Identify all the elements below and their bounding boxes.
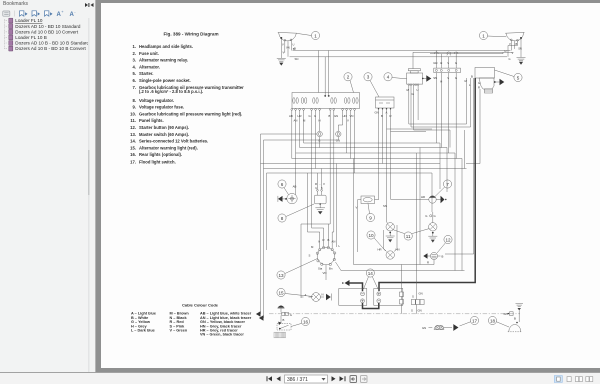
svg-text:V: V (323, 182, 325, 186)
layout icon 1 (active) (554, 376, 562, 383)
svg-text:V: V (447, 76, 449, 80)
scrollbar (88, 18, 90, 372)
svg-text:Fig. 389 - Wiring Diagram: Fig. 389 - Wiring Diagram (163, 32, 218, 37)
svg-text:18: 18 (490, 318, 496, 323)
svg-text:Starter.: Starter. (139, 71, 153, 76)
node label 16 (291, 317, 310, 326)
node label 8 (278, 204, 314, 222)
multi-way connector (434, 68, 461, 73)
svg-text:5.: 5. (133, 71, 137, 76)
battery 1 (14) (339, 289, 367, 306)
svg-text:4.: 4. (133, 64, 137, 69)
node label 6 (278, 180, 289, 195)
svg-text:B: B (442, 255, 444, 259)
fuse unit top feeds (319, 51, 329, 96)
svg-text:G: G (425, 214, 427, 218)
svg-text:4: 4 (387, 75, 390, 80)
headlamp right lead labels (505, 42, 522, 61)
ground (switch 16) (278, 306, 285, 313)
svg-text:GN: GN (419, 292, 423, 296)
node label 12 (437, 235, 452, 253)
previous view icon (350, 376, 357, 383)
node label 3 (364, 73, 379, 97)
svg-text:AB: AB (293, 184, 297, 188)
ground (right headlamp) (517, 58, 526, 65)
voltage regulator (8) (314, 189, 326, 204)
svg-text:10: 10 (368, 233, 374, 238)
svg-text:13: 13 (278, 273, 284, 278)
left wire end arrows (256, 311, 264, 321)
svg-text:8: 8 (281, 216, 284, 221)
ground (panel lamp left) (386, 233, 395, 242)
svg-text:Alternator warning light (red): Alternator warning light (red). (139, 145, 198, 150)
svg-text:GN: GN (375, 111, 379, 115)
svg-text:G: G (309, 114, 311, 118)
svg-text:Rear lights (optional).: Rear lights (optional). (139, 152, 182, 157)
svg-text:R: R (427, 261, 429, 265)
svg-text:G: G (290, 313, 292, 317)
next page button (332, 376, 336, 381)
svg-text:SN: SN (433, 76, 437, 80)
routing bus lines (261, 143, 467, 173)
svg-text:1: 1 (482, 33, 485, 38)
regulator feed wires (317, 169, 321, 190)
master switch terminal labels (309, 238, 341, 275)
svg-text:8.: 8. (133, 98, 137, 103)
svg-text:GN: GN (334, 114, 338, 118)
node label 1 (left) (297, 31, 320, 39)
headlamp left (1) (278, 32, 297, 41)
svg-text:3.: 3. (133, 58, 137, 63)
svg-text:Flood light switch.: Flood light switch. (139, 160, 176, 165)
svg-text:AB: AB (289, 114, 293, 118)
headlamp right (1) (505, 32, 524, 41)
master switch (13) (316, 246, 336, 265)
svg-text:A: A (305, 293, 307, 297)
starter (5) (475, 68, 496, 94)
svg-text:SN: SN (518, 47, 522, 51)
fuse unit wire labels (289, 114, 353, 123)
connector stack labels (411, 292, 423, 313)
node label 5 (495, 70, 523, 82)
node label 17 (460, 316, 479, 326)
svg-text:2.: 2. (133, 51, 137, 56)
svg-text:G: G (509, 57, 511, 61)
svg-text:G: G (455, 76, 457, 80)
bookmark icon 3 (45, 11, 53, 16)
starter drop wires (466, 78, 480, 254)
svg-text:3: 3 (367, 75, 370, 80)
svg-text:Headlamps and side lights.: Headlamps and side lights. (139, 44, 193, 49)
crossing hops (435, 52, 458, 56)
svg-text:5: 5 (517, 75, 520, 80)
svg-text:H: H (440, 61, 442, 65)
rear light (18) (508, 322, 522, 332)
svg-text:H: H (440, 80, 442, 84)
connector stack GN (near battery cable) (411, 153, 424, 314)
node label 2 (344, 73, 354, 93)
ground (regulator) (315, 204, 325, 214)
wire bus G upper (413, 52, 514, 68)
wires to lamps (354, 159, 435, 265)
svg-text:G: G (455, 61, 457, 65)
page number box (285, 375, 328, 383)
ground (panel lamp right) (428, 233, 437, 242)
layout icon 3 (575, 377, 582, 382)
bookmark icon 1 (19, 11, 27, 16)
svg-text:11.: 11. (130, 118, 136, 123)
svg-text:Starter button (90 Amps).: Starter button (90 Amps). (139, 125, 189, 130)
ground (left headlamp) (277, 58, 286, 65)
bullet connector GN (336, 131, 341, 142)
svg-text:HN: HN (343, 114, 347, 118)
rear light connector pair (16) (281, 312, 288, 323)
svg-text:1: 1 (314, 33, 317, 38)
svg-text:B: B (471, 75, 473, 79)
svg-text:V: V (512, 51, 514, 55)
svg-text:V: V (447, 61, 449, 65)
svg-text:Voltage regulator.: Voltage regulator. (139, 98, 174, 103)
svg-text:16.: 16. (130, 152, 136, 157)
svg-text:B: B (294, 47, 296, 51)
fuse 9 labels (356, 204, 387, 210)
svg-text:GN: GN (422, 326, 426, 330)
svg-text:5: 5 (321, 186, 323, 190)
svg-text:SN: SN (295, 57, 299, 61)
svg-text:7: 7 (446, 182, 449, 187)
svg-text:U: U (315, 186, 317, 190)
headlamp left lead labels (282, 43, 295, 55)
svg-text:GN: GN (418, 309, 422, 313)
svg-text:S: S (309, 254, 311, 258)
legend list (130, 44, 244, 165)
svg-text:M: M (407, 88, 410, 92)
wire bus B (293, 47, 511, 51)
svg-text:(.2 to .6 kg/cm² - 2.8 to 8.5: (.2 to .6 kg/cm² - 2.8 to 8.5 p.s.i.). (139, 89, 203, 94)
svg-text:N: N (322, 293, 324, 297)
printed stamp (274, 332, 286, 338)
toolbar expand icon (3, 11, 10, 16)
relay drop wires (379, 110, 433, 223)
header right icons (85, 3, 94, 7)
svg-text:Single-pole power socket.: Single-pole power socket. (139, 78, 191, 83)
node label 14 (364, 269, 379, 289)
bullet connector G (317, 131, 322, 147)
warning lamp (10) (378, 248, 400, 260)
first page button (267, 376, 273, 381)
svg-text:VN: VN (286, 46, 290, 50)
switch 16 labels (283, 313, 292, 322)
svg-text:9: 9 (369, 215, 372, 220)
svg-text:SN: SN (383, 204, 387, 208)
svg-text:G: G (434, 214, 436, 218)
pressure transmitter (7) (391, 195, 447, 203)
battery thick cable (350, 78, 476, 309)
svg-text:B: B (514, 317, 516, 321)
svg-text:17.: 17. (130, 160, 136, 165)
routing left verticals (261, 134, 339, 318)
alternator drop wires (409, 86, 471, 148)
svg-text:15.: 15. (130, 145, 136, 150)
relay wire labels (375, 111, 392, 119)
relay (3) (376, 97, 395, 110)
svg-text:V – Green: V – Green (170, 329, 188, 333)
panel lamp left (11) (386, 223, 394, 234)
svg-text:GN: GN (504, 312, 508, 316)
alternator wire labels (407, 88, 419, 96)
wire bus SN (290, 57, 508, 61)
svg-text:17: 17 (472, 318, 478, 323)
rear light labels (504, 312, 517, 321)
svg-text:15: 15 (278, 290, 284, 295)
headlamp left leads (281, 38, 291, 58)
svg-text:GN: GN (336, 139, 340, 143)
svg-text:Voltage regulator fuse.: Voltage regulator fuse. (139, 105, 184, 110)
alternator (4) (407, 69, 423, 86)
svg-text:11: 11 (406, 234, 411, 239)
svg-text:HN: HN (396, 248, 400, 252)
svg-text:VN: VN (350, 114, 354, 118)
cable colour code table (131, 303, 252, 337)
wire V drop (447, 57, 449, 153)
svg-text:14: 14 (368, 271, 374, 276)
layout icon 2 (567, 377, 571, 382)
svg-text:Fuse unit.: Fuse unit. (139, 51, 159, 56)
svg-text:2: 2 (347, 75, 350, 80)
svg-text:6.: 6. (133, 78, 137, 83)
next view icon (disabled) (361, 376, 368, 383)
svg-text:V: V (356, 206, 358, 210)
node label 11 (393, 229, 430, 241)
alternator arrow (422, 75, 431, 81)
svg-text:6: 6 (281, 182, 284, 187)
power socket (6) (278, 193, 297, 203)
svg-text:Alternator.: Alternator. (139, 64, 160, 69)
regulator fuse (9) (358, 196, 379, 252)
flood light switch (17) (422, 324, 459, 331)
wire GN drop (433, 51, 437, 144)
master switch feed wires (301, 164, 474, 299)
wire bus H short (430, 52, 503, 53)
svg-text:7.: 7. (133, 85, 137, 90)
svg-text:14.: 14. (130, 139, 136, 144)
prev page button (277, 376, 281, 381)
node label 7 (435, 180, 452, 197)
svg-text:S: S (412, 295, 414, 299)
svg-text:1.: 1. (133, 44, 137, 49)
node label 1 (right) (479, 31, 506, 39)
node label 4 (384, 73, 407, 81)
svg-text:13.: 13. (130, 132, 136, 137)
svg-text:M: M (465, 79, 468, 83)
wire G drop (455, 52, 457, 158)
wire drops from fuse unit (292, 110, 355, 232)
svg-text:12: 12 (445, 237, 451, 242)
node label 13 (277, 259, 318, 280)
starter wire labels (465, 75, 481, 90)
svg-text:Panel lights.: Panel lights. (139, 118, 164, 123)
svg-text:HR: HR (421, 195, 425, 199)
svg-text:Sta: Sta (318, 267, 323, 271)
svg-text:16: 16 (303, 319, 309, 324)
battery cable arrow (342, 280, 350, 286)
svg-text:Master switch (60 Amps).: Master switch (60 Amps). (139, 132, 189, 137)
svg-text:Cable Colour Code: Cable Colour Code (182, 303, 219, 308)
rear light connector (508, 312, 514, 316)
node label 9 (366, 204, 374, 222)
ground (rear light) (516, 304, 524, 323)
svg-text:G: G (412, 92, 414, 96)
node label 10 (367, 231, 386, 251)
battery 2 (14) (374, 289, 403, 306)
svg-text:L – Dark blue: L – Dark blue (131, 329, 155, 333)
bookmark icon 2 (32, 11, 40, 16)
connector pair on wire 401 (400, 265, 404, 314)
dash-dot line (269, 313, 520, 315)
svg-text:S: S (411, 309, 413, 313)
flood switch box (16) (277, 322, 291, 330)
svg-text:V: V (509, 42, 511, 46)
svg-text:12.: 12. (130, 125, 136, 130)
svg-text:Gearbox lubricating oil pre: Gearbox lubricating oil pressure warning… (139, 111, 242, 116)
fuse unit terminals (291, 109, 356, 111)
node label 18 (488, 316, 509, 327)
svg-text:B: B (283, 318, 285, 322)
svg-text:G: G (478, 81, 480, 85)
bookmark flags (9, 18, 13, 51)
svg-text:V: V (282, 43, 284, 47)
warning light (15) (301, 293, 332, 302)
wire H drop (440, 54, 442, 148)
routing right verticals (420, 130, 465, 271)
svg-text:HR: HR (378, 248, 382, 252)
starter button (12) (423, 252, 443, 264)
svg-text:L: L (339, 244, 341, 248)
svg-text:GN: GN (433, 61, 437, 65)
headlamp right leads (508, 38, 521, 57)
socket feed wire (293, 184, 297, 188)
svg-text:Series-connected 12 Volt batte: Series-connected 12 Volt batteries. (139, 139, 208, 144)
starter arrow (495, 79, 505, 85)
svg-text:B: B (516, 42, 518, 46)
panel lamp right (11) (425, 212, 437, 234)
svg-text:9.: 9. (133, 105, 137, 110)
node label 15 (277, 288, 313, 296)
svg-text:M: M (311, 245, 314, 249)
svg-text:V: V (283, 51, 285, 55)
svg-text:VN – Green, black tracer: VN – Green, black tracer (200, 333, 244, 337)
tree lines (5, 19, 8, 49)
svg-text:Bn: Bn (329, 267, 333, 271)
svg-text:R: R (478, 86, 480, 90)
svg-text:Alternator warning relay.: Alternator warning relay. (139, 58, 188, 63)
fuse unit (2) (292, 93, 360, 109)
wire labels GN H V G row2 (433, 76, 457, 84)
lamp 15 labels (305, 293, 324, 297)
layout icon 4 (586, 377, 593, 382)
svg-text:V: V (347, 119, 349, 123)
svg-text:10.: 10. (130, 111, 136, 116)
last page button (340, 376, 346, 381)
svg-text:G: G (314, 114, 316, 118)
regulator top labels (315, 182, 325, 190)
